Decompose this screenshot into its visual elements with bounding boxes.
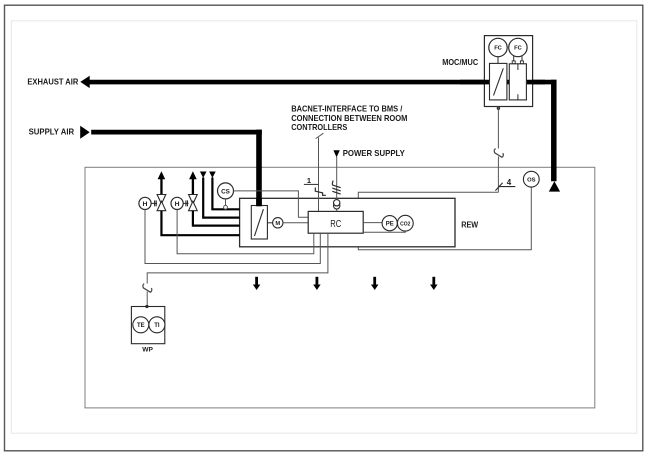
svg-text:FC: FC <box>494 46 502 52</box>
induction unit box <box>240 198 455 247</box>
WP unit box <box>131 307 164 344</box>
exhaust air duct (thick) vertical <box>551 80 557 182</box>
room controller RC <box>308 211 363 233</box>
sensor CS <box>218 183 234 199</box>
sensor FC right <box>509 38 527 56</box>
wire MOC/MUC down to room <box>497 107 499 149</box>
valve V1 up-arrow <box>158 171 166 179</box>
actuator H2 <box>171 197 183 209</box>
svg-text:CONTROLLERS: CONTROLLERS <box>291 122 347 132</box>
valve V1 pipe to unit <box>161 211 239 236</box>
airflow arrow 3 <box>373 277 376 285</box>
valve V1 <box>157 195 166 204</box>
cable break symbol <box>494 149 503 158</box>
wire M to RC <box>283 222 308 224</box>
sensor TE <box>133 317 149 333</box>
power supply feed arrowhead <box>333 150 339 157</box>
svg-text:SUPPLY AIR: SUPPLY AIR <box>29 127 75 137</box>
shield hatch on power wire <box>331 181 334 185</box>
airflow arrow 4 <box>432 277 435 285</box>
svg-text:TE: TE <box>137 323 145 329</box>
airflow arrow 1 <box>255 277 258 285</box>
wire from MOC/MUC around REW to OS <box>358 187 531 250</box>
svg-text:FC: FC <box>514 46 522 52</box>
exhaust duct through MOC/MUC <box>460 80 545 85</box>
damper in unit <box>251 206 267 240</box>
bacnet wire down to RC <box>318 138 320 212</box>
supply air duct arrowhead <box>80 126 90 139</box>
sensor PE <box>382 216 397 231</box>
svg-text:REW: REW <box>461 220 479 230</box>
svg-text:PE: PE <box>386 222 394 228</box>
wire CS to RC <box>234 191 309 217</box>
svg-text:OS: OS <box>527 178 536 184</box>
pipe drop 2 with down arrowhead <box>209 172 216 178</box>
damper (MOC/MUC left rect) <box>490 63 507 100</box>
svg-text:4: 4 <box>507 178 512 187</box>
svg-text:MOC/MUC: MOC/MUC <box>442 57 478 67</box>
svg-text:RC: RC <box>330 219 341 230</box>
svg-text:CS: CS <box>221 188 230 195</box>
junction dot under MOC/MUC <box>497 107 500 110</box>
valve V2 pipe to unit <box>193 211 240 226</box>
room boundary box <box>85 167 595 408</box>
svg-text:M: M <box>275 221 280 227</box>
wire RC to CO2 <box>363 231 405 232</box>
svg-text:1: 1 <box>307 176 311 185</box>
svg-text:CO2: CO2 <box>400 221 411 227</box>
svg-text:TI: TI <box>154 323 160 329</box>
power supply wire down to RC <box>336 157 338 199</box>
bacnet wire continuation slash <box>316 133 324 138</box>
pipe drop 1 with down arrowhead <box>200 172 207 178</box>
sensor TI <box>149 317 165 333</box>
svg-text:EXHAUST AIR: EXHAUST AIR <box>27 77 78 87</box>
wire RC to H1 valve group <box>145 210 320 264</box>
airflow arrow 2 <box>315 277 318 285</box>
wire RC to H2 valve group <box>177 210 314 254</box>
wire count marker 4 <box>495 183 502 191</box>
supply duct (thick) vertical into unit <box>256 130 262 207</box>
connector circle on power wire <box>334 203 340 209</box>
MOC/MUC unit box <box>484 36 532 107</box>
actuator M <box>267 222 272 224</box>
svg-text:WP: WP <box>142 346 153 353</box>
wire RC to WP unit <box>147 233 328 283</box>
svg-text:H: H <box>175 201 180 208</box>
sensor CO2 <box>397 215 413 231</box>
terminal 1 tick <box>304 183 319 185</box>
valve V2 <box>189 195 198 204</box>
wire RC to PE <box>363 222 382 224</box>
sensor OS <box>523 171 539 187</box>
exhaust air duct arrowhead <box>80 76 89 88</box>
cable break on WP wire <box>143 284 152 293</box>
exhaust air duct (thick) horizontal <box>89 80 556 85</box>
switch slash on bacnet wire <box>315 188 326 196</box>
exhaust duct room-end arrowhead <box>549 181 560 191</box>
supply duct end over damper <box>256 199 262 206</box>
sensor FC left <box>489 38 507 56</box>
valve V2 up-arrow <box>189 171 197 179</box>
svg-text:H: H <box>143 201 148 208</box>
actuator H1 <box>139 197 151 209</box>
fan/coil (MOC/MUC right rect) <box>509 64 526 100</box>
supply air duct (thick) horizontal <box>91 130 262 135</box>
svg-text:POWER SUPPLY: POWER SUPPLY <box>343 148 405 158</box>
